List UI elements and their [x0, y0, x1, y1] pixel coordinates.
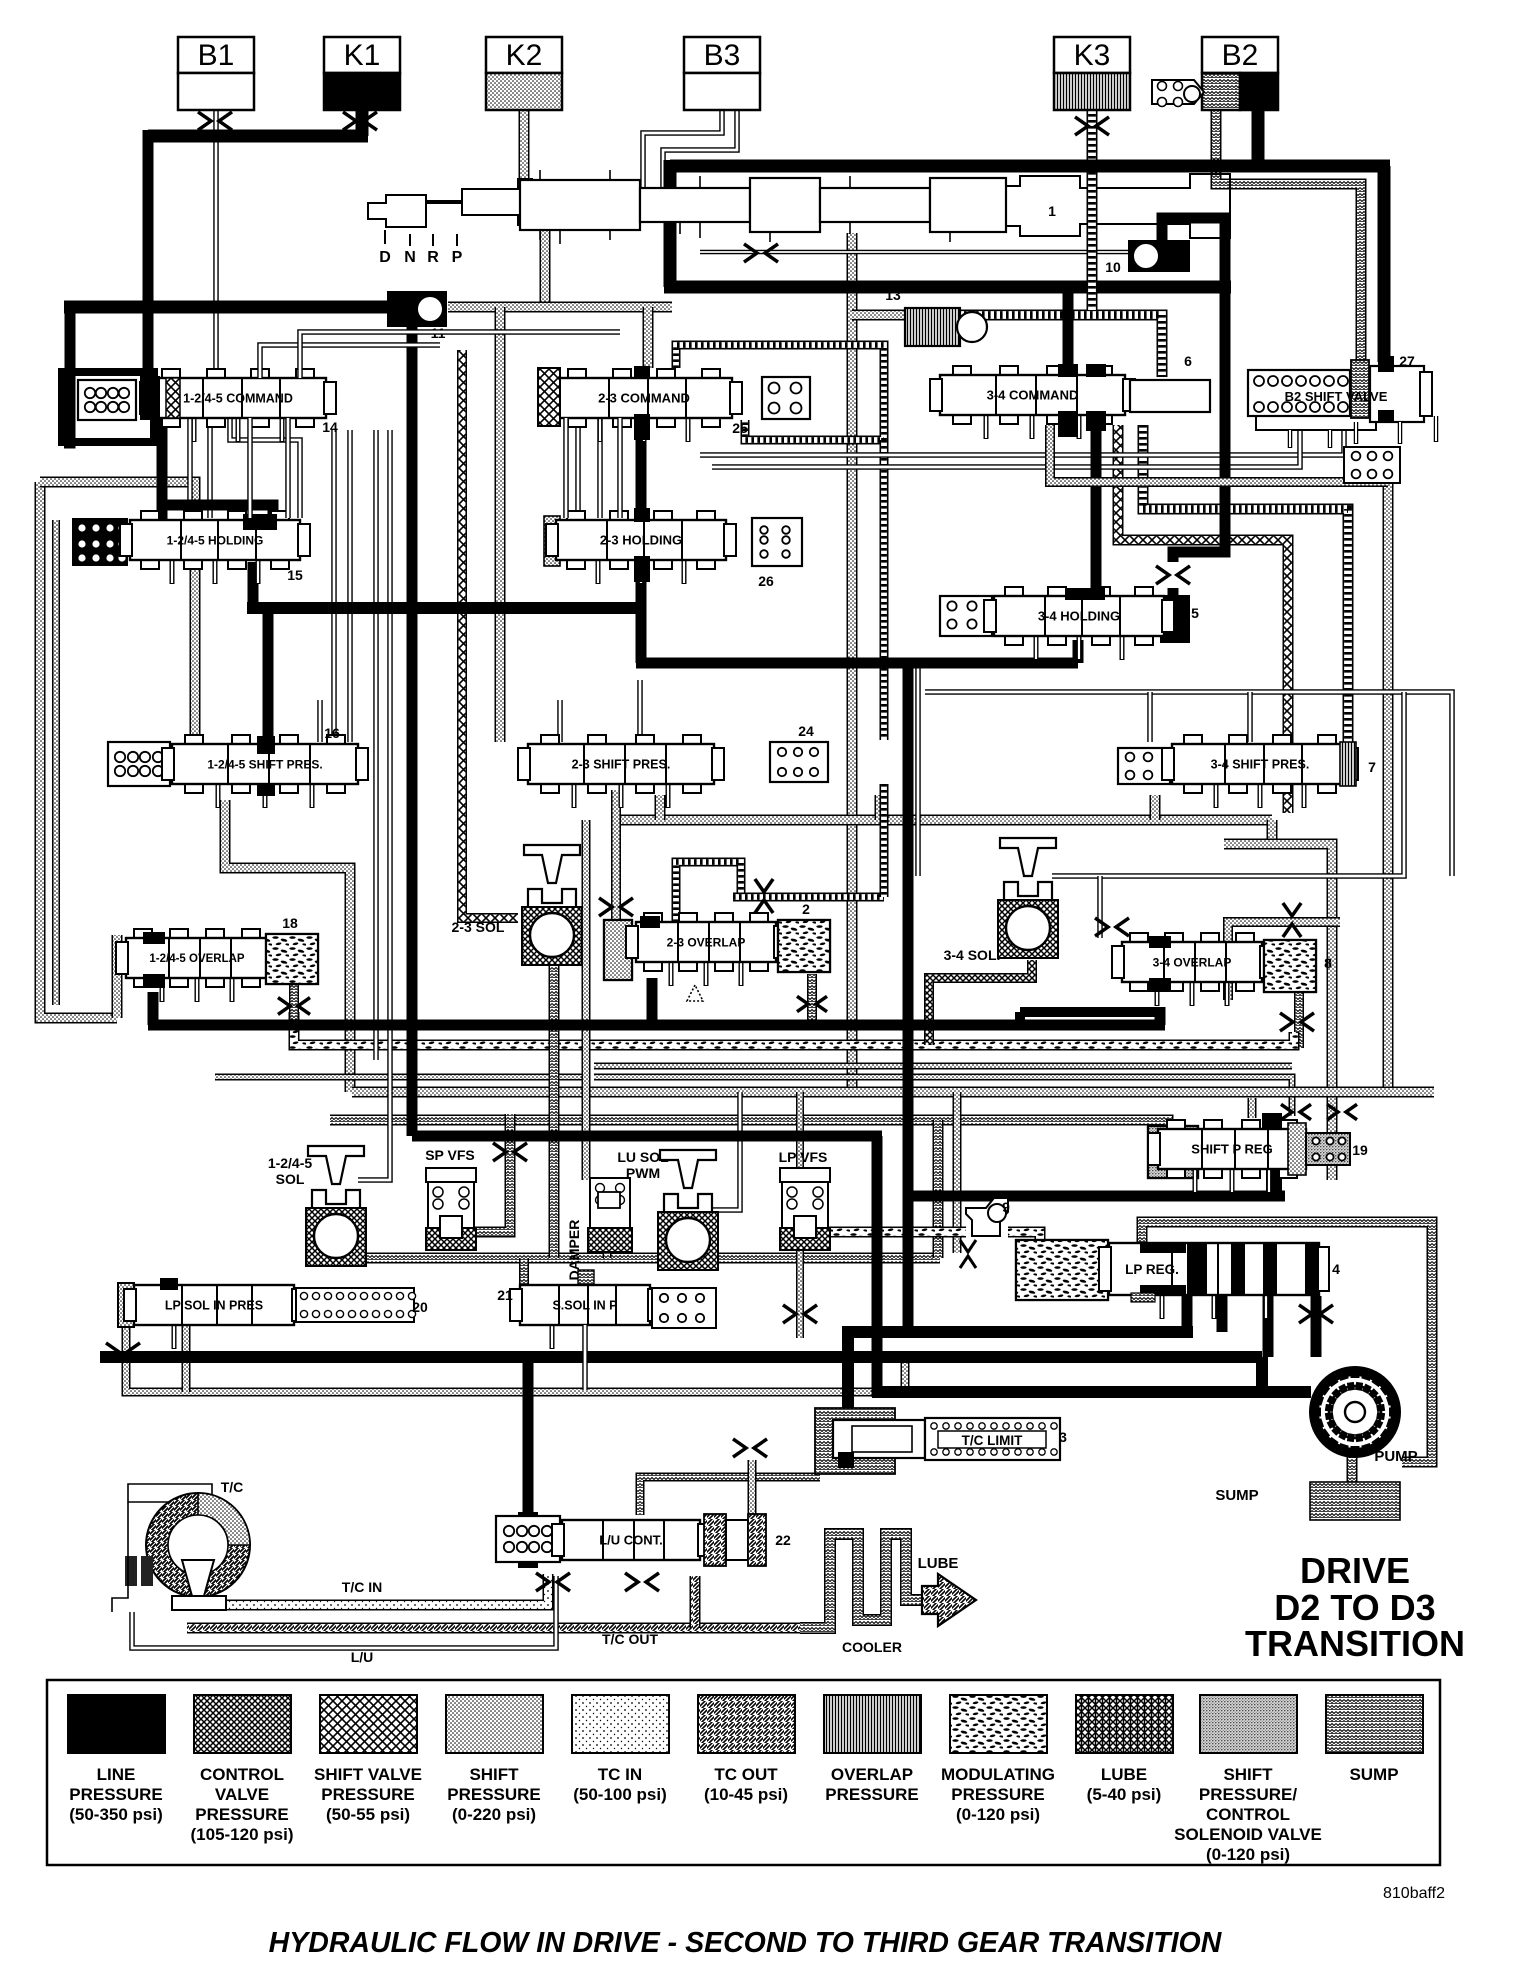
- sensor block B2 shift valve: [1248, 370, 1350, 416]
- svg-text:PUMP: PUMP: [1374, 1448, 1417, 1465]
- pipe thin dotted y1077 left: [215, 1074, 584, 1081]
- line y1025 trunk: [148, 1020, 1165, 1031]
- line 1-2/4-5 holding drop: [248, 562, 259, 602]
- pipe comp13 to 3-4 command: [940, 315, 1162, 377]
- stipple bar 2-3 holding: [544, 516, 560, 566]
- legend: [47, 1680, 1440, 1865]
- svg-text:L/U: L/U: [351, 1649, 374, 1665]
- thin y876 trunk: [1052, 692, 1404, 876]
- 1-2/4-5 overlap bottom connector: [143, 974, 165, 988]
- pipe tc out up to lu cont: [690, 1576, 701, 1628]
- valve 2-3 holding: [546, 511, 736, 584]
- pipe ladder y521: [1143, 425, 1348, 742]
- thin 1-2/4-5 shift pres up: [317, 700, 323, 742]
- pipe block8 sump drop: [1294, 992, 1304, 1048]
- valve lp sol in pres: [124, 1285, 304, 1349]
- svg-text:K2: K2: [506, 39, 543, 72]
- thin long x350: [347, 430, 353, 742]
- clutch box B3: [684, 37, 760, 110]
- svg-text:2-3 OVERLAP: 2-3 OVERLAP: [667, 935, 746, 949]
- pipe B2 sump drop: [1216, 108, 1361, 385]
- pipe sv y559: [1118, 425, 1288, 813]
- cooler lube arrow: [922, 1574, 976, 1626]
- component 9: [966, 1198, 1008, 1236]
- line ball10 riser: [1162, 218, 1225, 287]
- pipe elbow to shift p reg: [1248, 1098, 1257, 1118]
- ladder bar 3-4 shift pres: [1340, 742, 1356, 786]
- sv block 2-3 cmd: [538, 368, 560, 426]
- svg-text:(5-40 psi): (5-40 psi): [1087, 1785, 1162, 1804]
- check below block 18: [278, 998, 310, 1015]
- pipe left frame vertical 2: [52, 520, 60, 1005]
- pipe lu cont right gray: [640, 1477, 820, 1515]
- svg-text:1-2/4-5: 1-2/4-5: [268, 1155, 313, 1171]
- 3-4 holding right connector: [1160, 595, 1190, 643]
- pipe cv from 1-2/4-5 shift pres: [225, 800, 350, 1092]
- pipe B3 drop 1: [643, 108, 722, 190]
- check below l/u cont b: [625, 1573, 659, 1591]
- ball 11 circle: [418, 297, 442, 321]
- pipe frame vertical x186: [182, 1325, 191, 1392]
- 3-4 overlap top connector: [1149, 936, 1171, 948]
- line x908 long: [903, 663, 914, 1332]
- sump bit under lp reg: [1131, 1293, 1155, 1302]
- svg-text:LP REG.: LP REG.: [1125, 1262, 1179, 1277]
- pipe trunk riser left: [655, 795, 666, 820]
- svg-text:(50-100 psi): (50-100 psi): [573, 1785, 667, 1804]
- pipe 2-3 sol drain: [549, 965, 560, 1258]
- thin cmd1 down d: [247, 418, 253, 518]
- stipple bar shift p reg: [1288, 1123, 1306, 1175]
- line 1-2/4-5 cmd to holding a: [157, 418, 168, 540]
- check modulating right: [1280, 1013, 1314, 1031]
- check 3-4 holding right: [1156, 566, 1190, 584]
- svg-text:R: R: [427, 249, 439, 266]
- lp reg band e: [1265, 1243, 1277, 1295]
- pipe left frame to shift pres: [40, 482, 195, 740]
- pipe lp reg sump frame: [1142, 1222, 1432, 1462]
- svg-text:PRESSURE: PRESSURE: [195, 1805, 289, 1824]
- cmd3 extra rect: [1130, 380, 1210, 412]
- thin cmd2 ports down a: [575, 418, 581, 518]
- B2 shift valve connector bottom: [1378, 410, 1394, 422]
- arrow v comp9: [960, 1240, 976, 1268]
- svg-text:3-4 COMMAND: 3-4 COMMAND: [987, 388, 1079, 403]
- block 25: [762, 377, 810, 419]
- svg-text:LP VFS: LP VFS: [779, 1149, 828, 1165]
- check above 3-4 overlap: [1283, 903, 1301, 937]
- pipe overlap left gray drop: [112, 935, 123, 1018]
- 2-3 command connector top: [634, 366, 650, 379]
- svg-text:LINE: LINE: [97, 1765, 136, 1784]
- l/u cont right bits: [704, 1514, 766, 1566]
- thin 3-4 holding down: [915, 668, 921, 876]
- pipe loop comp 25: [676, 345, 884, 440]
- line x848 to t/c limit: [842, 1326, 854, 1455]
- thin cmd1 down e: [285, 418, 291, 518]
- valve 1-2/4-5 command: [140, 369, 336, 442]
- line y1357 trunk: [100, 1351, 1262, 1363]
- lp reg band d: [1140, 1285, 1186, 1295]
- thin 3-4 cmd long a: [700, 420, 1344, 455]
- pipe sump vertical x938: [933, 1120, 944, 1258]
- thin 1-2/4-5 sol feed: [358, 430, 390, 1180]
- svg-text:1-2/4-5 HOLDING: 1-2/4-5 HOLDING: [167, 533, 264, 547]
- thin 3-4 shift pres feed a: [1147, 692, 1153, 742]
- line lp reg stub a: [1182, 1296, 1193, 1332]
- valve lp reg: [1099, 1243, 1329, 1319]
- line 1-2/4-5 overlap stub: [148, 992, 159, 1025]
- thin cmd2 down c: [563, 418, 569, 518]
- line B2 black drop: [1252, 108, 1265, 166]
- svg-text:DRIVE: DRIVE: [1300, 1550, 1410, 1591]
- line 2-3 overlap stub: [647, 978, 658, 1025]
- t/c limit body: [833, 1420, 925, 1458]
- clutch box K2: [486, 37, 562, 110]
- thin cmd1 up b: [300, 332, 620, 378]
- line y1012 riser: [1015, 1012, 1025, 1025]
- pipe damper stem: [603, 1250, 612, 1258]
- svg-text:B2 SHIFT VALVE: B2 SHIFT VALVE: [1285, 389, 1388, 404]
- svg-text:L/U CONT.: L/U CONT.: [599, 1533, 663, 1548]
- pump: [1309, 1366, 1401, 1458]
- line y307 trunk left: [64, 301, 388, 314]
- line x268 to shift pres: [263, 608, 274, 742]
- pipe sp vfs drop: [474, 1114, 510, 1232]
- lp reg band f: [1305, 1243, 1319, 1295]
- sump block: [1310, 1482, 1400, 1520]
- pipe 3-4 shift pres bottom riser: [1150, 795, 1161, 820]
- valve 1-2/4-5 overlap: [116, 929, 278, 1002]
- pipe comp13 up branch: [852, 310, 905, 321]
- pipe x582 long: [582, 820, 591, 1180]
- pipe sv vertical x462: [462, 350, 518, 918]
- block 18: [266, 934, 318, 984]
- B2 shift valve sump bar: [1351, 360, 1369, 418]
- svg-text:3: 3: [1059, 1429, 1067, 1445]
- svg-text:P: P: [452, 249, 463, 266]
- svg-text:1: 1: [1048, 203, 1056, 219]
- check right side lu: [733, 1439, 767, 1457]
- component 13: [905, 308, 987, 346]
- valve 2-3 command: [546, 369, 742, 442]
- svg-text:LUBE: LUBE: [1101, 1765, 1147, 1784]
- thin cmd1 ports down b: [207, 418, 213, 518]
- clutch box K3: [1054, 37, 1130, 110]
- junction ball 10 box: [1128, 240, 1190, 272]
- lp reg band c: [1140, 1243, 1186, 1253]
- svg-text:HYDRAULIC FLOW IN DRIVE - SECO: HYDRAULIC FLOW IN DRIVE - SECOND TO THIR…: [269, 1927, 1223, 1959]
- line lp reg stub c: [1263, 1296, 1274, 1357]
- check y1357 left: [106, 1343, 140, 1361]
- sensor block 3-4 holding: [940, 596, 992, 636]
- line 3-4 overlap stub: [1155, 1007, 1166, 1025]
- thin 2-3 shift pres up b: [637, 680, 643, 742]
- 3-4 command connector b top: [1086, 364, 1106, 377]
- check on y287: [744, 244, 778, 262]
- 1-2/4-5 overlap top connector: [143, 932, 165, 944]
- line 3-4 holding bottom riser: [1073, 640, 1084, 663]
- frame around sensor 1-2/4-5 command: [62, 372, 154, 442]
- line to L/U cont: [523, 1357, 534, 1512]
- svg-text:OVERLAP: OVERLAP: [831, 1765, 913, 1784]
- pipe ladder x880 down to 2-3 shift pres: [880, 440, 889, 740]
- connector icon left of B2: [1152, 80, 1204, 107]
- shift p reg surround: [1148, 1126, 1198, 1178]
- svg-text:T/C OUT: T/C OUT: [602, 1631, 658, 1647]
- valve 3-4 shift pres: [1162, 735, 1358, 808]
- svg-text:2-3 SHIFT PRES.: 2-3 SHIFT PRES.: [572, 758, 671, 772]
- valve s.sol in p: [510, 1285, 660, 1349]
- pipe 2-3 overlap sump check: [807, 974, 817, 1030]
- svg-text:SHIFT VALVE: SHIFT VALVE: [314, 1765, 422, 1784]
- svg-text:20: 20: [412, 1299, 428, 1315]
- pipe right vertical x1388: [1383, 484, 1394, 1092]
- pipe ladder x884 lower: [880, 784, 889, 897]
- check under B1: [198, 112, 232, 130]
- lp sol spring: [296, 1288, 416, 1322]
- thin lu sol feed: [712, 1092, 740, 1210]
- svg-text:SHIFT: SHIFT: [1223, 1765, 1273, 1784]
- pipe lp sol frame: [126, 1285, 905, 1392]
- line x1384 to B2 shift valve: [1378, 166, 1391, 362]
- svg-text:2-3 HOLDING: 2-3 HOLDING: [600, 533, 682, 548]
- pipe left frame vertical: [40, 482, 117, 1018]
- pipe manual valve to ball 11 stipple: [540, 230, 551, 305]
- block 19: [1306, 1133, 1350, 1165]
- valve 1-2/4-5 shift pres: [162, 735, 368, 808]
- svg-text:T/C LIMIT: T/C LIMIT: [962, 1433, 1023, 1448]
- line x1262 down: [1256, 1357, 1268, 1392]
- valve 3-4 holding: [984, 587, 1174, 660]
- line top header y166: [670, 160, 1390, 173]
- thin 2-3 shift pres up a: [557, 700, 563, 742]
- t/c limit spring label: [925, 1418, 1060, 1460]
- svg-text:SUMP: SUMP: [1215, 1487, 1258, 1504]
- pipe B1 drop: [213, 108, 219, 380]
- valve shift p reg: [1148, 1120, 1316, 1193]
- damper body: [588, 1178, 632, 1252]
- clutch box B1: [178, 37, 254, 110]
- svg-text:PWM: PWM: [626, 1165, 660, 1181]
- svg-text:D2 TO D3: D2 TO D3: [1274, 1587, 1435, 1628]
- svg-text:2-3 SOL: 2-3 SOL: [452, 919, 505, 935]
- pipe trunk to 3-4 overlap: [1267, 820, 1278, 844]
- pipe lp vfs to 9: [826, 1227, 966, 1238]
- line y663 trunk: [636, 658, 1078, 669]
- thin 3-4 cmd long b: [712, 430, 1300, 467]
- lp sol connector: [160, 1278, 178, 1290]
- line K1 drop: [356, 108, 369, 136]
- thin long x376: [373, 430, 379, 1060]
- t/c limit black sq: [838, 1452, 854, 1468]
- line 1-2/4-5 cmd to holding b: [160, 505, 273, 522]
- line left frame drop: [64, 301, 70, 443]
- s.sol block: [652, 1288, 716, 1328]
- svg-text:2: 2: [802, 901, 810, 917]
- pipe 2-3 overlap left riser: [611, 790, 621, 920]
- modulating block left of lp reg: [1016, 1240, 1108, 1300]
- line y1392 to pump: [872, 1386, 1311, 1398]
- svg-text:8: 8: [1324, 955, 1332, 971]
- thin cmd2 ports down b: [597, 418, 603, 518]
- sv bar on 1-2/4-5 cmd: [166, 378, 180, 418]
- svg-text:SUMP: SUMP: [1349, 1765, 1398, 1784]
- pipe stipple branch a: [495, 307, 506, 742]
- 1-2/4-5 shift pres connector bottom: [257, 784, 275, 796]
- line x148 drop: [143, 130, 154, 376]
- svg-text:4: 4: [1332, 1261, 1340, 1277]
- svg-text:T/C: T/C: [221, 1479, 244, 1495]
- check below lp reg: [1299, 1305, 1333, 1323]
- svg-text:B3: B3: [704, 39, 741, 72]
- line y1332 trunk: [848, 1326, 1193, 1338]
- valve B2 shift valve body: [1256, 366, 1436, 448]
- svg-text:SP VFS: SP VFS: [425, 1147, 475, 1163]
- thin cmd1 ports down a: [187, 418, 193, 518]
- svg-text:26: 26: [758, 573, 774, 589]
- svg-text:(50-350 psi): (50-350 psi): [69, 1805, 163, 1824]
- svg-text:K3: K3: [1074, 39, 1111, 72]
- pipe pump to sump: [1347, 1452, 1358, 1482]
- svg-text:27: 27: [1399, 353, 1415, 369]
- check near 19 b: [1327, 1104, 1357, 1119]
- svg-text:13: 13: [885, 287, 901, 303]
- line y287 trunk: [664, 281, 1231, 294]
- svg-text:10: 10: [1105, 259, 1121, 275]
- svg-text:COOLER: COOLER: [842, 1639, 902, 1655]
- thin long x334: [331, 430, 337, 742]
- pipe K2 long vertical: [847, 233, 858, 1092]
- line y133 B1-K1 header: [148, 130, 368, 143]
- svg-text:PRESSURE: PRESSURE: [321, 1785, 415, 1804]
- pipe thin dotted y1077: [594, 1077, 1292, 1116]
- svg-text:22: 22: [775, 1532, 791, 1548]
- svg-text:3-4 HOLDING: 3-4 HOLDING: [1038, 609, 1120, 624]
- sensor block 3-4 shift pres: [1118, 748, 1170, 784]
- lp reg band a: [1187, 1243, 1207, 1295]
- svg-text:T/C IN: T/C IN: [342, 1579, 382, 1595]
- sensor block 1-2/4-5 command: [78, 380, 136, 420]
- valve 2-3 shift pres: [518, 735, 724, 808]
- pipe sump bottom trunk y1258: [330, 1245, 940, 1258]
- sensor block 1-2/4-5 holding: [72, 518, 128, 566]
- 3-4 command connector a bottom: [1058, 411, 1078, 437]
- check under K1: [343, 112, 377, 130]
- pipe thin dotted y1066: [594, 1063, 1292, 1070]
- check near sp vfs: [493, 1143, 527, 1161]
- 2-3 command connector bottom: [634, 414, 650, 440]
- svg-text:SOLENOID VALVE: SOLENOID VALVE: [1174, 1825, 1322, 1844]
- line y1012 short: [1020, 1007, 1160, 1017]
- 2-3 overlap top connector: [640, 916, 660, 928]
- svg-text:5: 5: [1191, 605, 1199, 621]
- 3-4 command connector a top: [1058, 364, 1078, 377]
- block 8: [1264, 940, 1316, 992]
- svg-text:SHIFT P REG: SHIFT P REG: [1191, 1142, 1272, 1157]
- pipe stipple vertical x957: [953, 1092, 962, 1253]
- line y608 trunk: [247, 602, 641, 614]
- pipe K3 drop: [1087, 108, 1098, 310]
- svg-text:PRESSURE: PRESSURE: [69, 1785, 163, 1804]
- junction ball 11 box: [387, 291, 447, 327]
- block under B2SV: [1344, 447, 1400, 483]
- pipe stipple y1092: [352, 1087, 1434, 1098]
- lp vfs body: [780, 1168, 830, 1250]
- t/c limit frame: [815, 1408, 895, 1474]
- pipe shift pres trunk y820: [618, 815, 1272, 826]
- check under K3: [1075, 117, 1109, 135]
- line 2-3 command down: [636, 380, 647, 663]
- pipe stipple branch b: [643, 307, 654, 368]
- sensor block 1-2/4-5 shift pres: [108, 742, 170, 786]
- svg-text:PRESSURE: PRESSURE: [951, 1785, 1045, 1804]
- svg-text:1-2/4-5 OVERLAP: 1-2/4-5 OVERLAP: [149, 953, 245, 965]
- sensor strip lp sol: [118, 1283, 134, 1327]
- svg-text:19: 19: [1352, 1142, 1368, 1158]
- svg-text:TC IN: TC IN: [598, 1765, 642, 1784]
- svg-text:3-4 SHIFT PRES.: 3-4 SHIFT PRES.: [1211, 758, 1310, 772]
- 2-3 holding connector top: [634, 508, 650, 522]
- check below l/u cont a: [536, 1573, 570, 1591]
- pipe y482 trunk: [1050, 425, 1388, 482]
- pipe 3-4 sol drain: [929, 960, 1032, 1045]
- thin cmd1 ports down c: [230, 418, 300, 518]
- pipe trunk riser mid: [875, 795, 886, 820]
- pipe ball11 stipple trunk: [448, 302, 672, 313]
- pipe l/u line: [132, 1576, 556, 1648]
- block 24: [770, 742, 828, 782]
- svg-text:(50-55 psi): (50-55 psi): [326, 1805, 410, 1824]
- svg-text:LUBE: LUBE: [918, 1555, 959, 1572]
- line x670 drop: [664, 160, 677, 287]
- s.sol sump sq: [578, 1270, 594, 1286]
- svg-text:PRESSURE: PRESSURE: [447, 1785, 541, 1804]
- svg-text:LP SOL IN PRES: LP SOL IN PRES: [165, 1299, 263, 1313]
- L/U cont connector: [518, 1512, 538, 1568]
- 1-2/4-5 holding top connector: [243, 514, 277, 530]
- valve 3-4 overlap: [1112, 933, 1272, 1006]
- pipe 2-3 overlap top loop: [676, 862, 741, 922]
- check above 2-3 overlap loop: [755, 879, 773, 913]
- line ball11 down x412: [407, 327, 418, 1136]
- pipe y844 to x1332: [1224, 844, 1332, 1180]
- svg-text:TRANSITION: TRANSITION: [1245, 1623, 1465, 1664]
- svg-text:810baff2: 810baff2: [1383, 1885, 1445, 1902]
- svg-text:7: 7: [1368, 759, 1376, 775]
- line lp reg stub d: [1311, 1296, 1322, 1357]
- svg-text:N: N: [404, 249, 416, 266]
- thin 3-4 overlap feed: [1097, 876, 1103, 938]
- solenoid lu sol pwm: [658, 1150, 718, 1270]
- sp vfs body: [426, 1168, 476, 1250]
- 3-4 holding top connector: [1065, 588, 1105, 600]
- line lp reg stub b: [1217, 1296, 1228, 1332]
- svg-text:(10-45 psi): (10-45 psi): [704, 1785, 788, 1804]
- pipe 3-4 overlap elbow: [1228, 922, 1340, 1000]
- svg-text:CONTROL: CONTROL: [1206, 1805, 1290, 1824]
- solenoid 2-3 sol: [522, 845, 582, 965]
- line y1196 trunk: [908, 1191, 1285, 1202]
- title drive: [1245, 1550, 1465, 1664]
- line 3-4 holding check drop: [1168, 588, 1179, 600]
- thin s.sol down: [582, 1325, 588, 1390]
- block left of 2-3 overlap: [604, 920, 632, 980]
- svg-text:VALVE: VALVE: [215, 1785, 269, 1804]
- thin y692 trunk: [925, 692, 1452, 876]
- svg-text:SOL: SOL: [276, 1171, 305, 1187]
- svg-text:21: 21: [497, 1287, 513, 1303]
